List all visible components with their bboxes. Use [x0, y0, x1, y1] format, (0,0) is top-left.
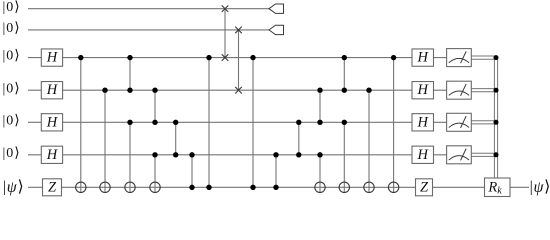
- svg-text:|0⟩: |0⟩: [3, 81, 21, 96]
- svg-text:|0⟩: |0⟩: [3, 146, 21, 161]
- svg-text:|ψ⟩: |ψ⟩: [530, 178, 550, 195]
- svg-text:H: H: [46, 82, 59, 98]
- svg-text:Z: Z: [420, 179, 429, 195]
- svg-text:H: H: [417, 147, 430, 163]
- svg-text:|ψ⟩: |ψ⟩: [3, 178, 25, 195]
- svg-text:Z: Z: [48, 179, 57, 195]
- svg-text:|0⟩: |0⟩: [3, 49, 21, 64]
- svg-text:H: H: [417, 82, 430, 98]
- svg-text:|0⟩: |0⟩: [3, 0, 21, 15]
- svg-text:H: H: [46, 147, 59, 163]
- svg-text:H: H: [417, 50, 430, 66]
- svg-text:|0⟩: |0⟩: [3, 113, 21, 128]
- svg-text:|0⟩: |0⟩: [3, 21, 21, 36]
- svg-text:H: H: [417, 114, 430, 130]
- svg-text:H: H: [46, 114, 59, 130]
- svg-text:H: H: [46, 50, 59, 66]
